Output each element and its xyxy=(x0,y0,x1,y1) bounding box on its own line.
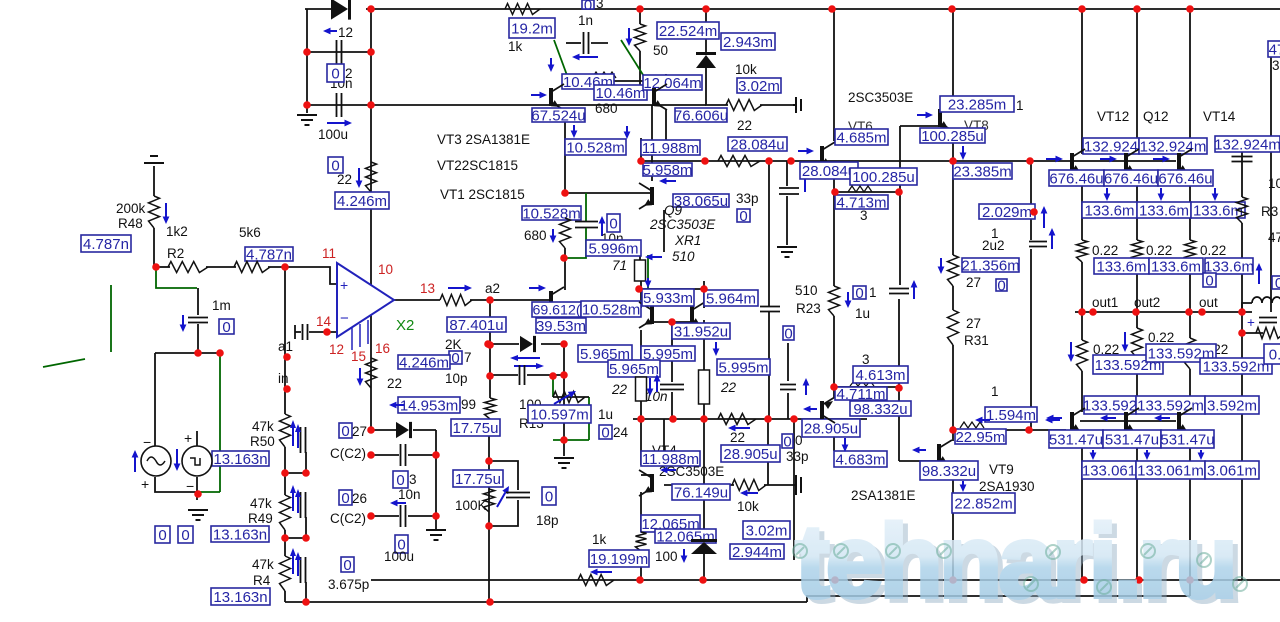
svg-text:2SC3503E: 2SC3503E xyxy=(659,464,724,479)
svg-text:4.787n: 4.787n xyxy=(246,246,292,263)
arrow 133.061 b xyxy=(1144,450,1151,460)
wire opamp out xyxy=(394,299,440,301)
svg-text:28.905u: 28.905u xyxy=(723,446,777,463)
capacitor 1u R23 xyxy=(889,289,909,294)
svg-text:67.524u: 67.524u xyxy=(531,107,585,124)
svg-text:3.02m: 3.02m xyxy=(738,78,780,95)
probe 87.401u xyxy=(447,317,506,334)
resistor 0.22 d xyxy=(1077,340,1088,371)
svg-text:17.75u: 17.75u xyxy=(453,420,499,437)
wire 10n mid green low xyxy=(566,228,586,258)
arrow XR1 xyxy=(645,254,662,261)
probe 133.061m b xyxy=(1136,461,1205,479)
wire row430 b xyxy=(413,429,436,431)
svg-text:4.787n: 4.787n xyxy=(83,236,129,253)
wire col 953 mid xyxy=(952,286,954,310)
arrow rect a down xyxy=(647,378,654,396)
capacitor 10n mid2 xyxy=(660,385,684,390)
probe 38.065u xyxy=(673,193,729,210)
transistor VT out2 low xyxy=(1124,408,1139,434)
resistor R50 xyxy=(280,414,291,447)
svg-text:27: 27 xyxy=(966,275,981,290)
svg-text:3: 3 xyxy=(860,208,868,223)
probe 28.084u right xyxy=(728,136,787,153)
junction n63 xyxy=(949,576,957,584)
svg-text:10.528m: 10.528m xyxy=(582,301,640,318)
probe 1.594m xyxy=(985,407,1037,424)
wire VT8 branch xyxy=(952,9,954,107)
probe 22.852m xyxy=(952,493,1015,513)
svg-text:132.924: 132.924 xyxy=(1084,138,1138,155)
junction n56 xyxy=(895,188,903,196)
svg-text:VT14: VT14 xyxy=(1203,109,1236,124)
svg-text:133.592: 133.592 xyxy=(1083,397,1137,414)
capacitor 10n bottom xyxy=(401,444,406,466)
junction n45 xyxy=(949,157,957,165)
wire a2 col down xyxy=(489,300,491,376)
probe 47 edge xyxy=(1268,41,1280,58)
junction n30 xyxy=(485,457,493,465)
svg-text:0: 0 xyxy=(341,423,349,440)
probe 10.528m mid xyxy=(522,205,581,222)
wire cap row 375b xyxy=(527,374,564,376)
svg-text:0: 0 xyxy=(181,527,189,544)
svg-text:100: 100 xyxy=(655,549,678,564)
resistor emitter b xyxy=(699,370,710,404)
svg-text:531.47u: 531.47u xyxy=(1049,431,1103,448)
svg-text:23.285m: 23.285m xyxy=(948,96,1006,113)
svg-text:C(C2): C(C2) xyxy=(330,511,366,526)
probe 132.924m c xyxy=(1214,136,1280,153)
probe 133.592m u3 xyxy=(1200,358,1272,375)
probe 22.524m xyxy=(657,22,719,40)
wire VT8 base col xyxy=(899,126,901,192)
wire 17.75 col xyxy=(489,376,491,398)
svg-text:out: out xyxy=(1199,295,1218,310)
junction n19 xyxy=(281,469,289,477)
arrow VT4 top xyxy=(660,467,676,474)
wire diode col 705b xyxy=(703,554,705,580)
svg-text:10p: 10p xyxy=(445,371,468,386)
transistor Q12 xyxy=(1124,149,1139,175)
probe 133.6m c xyxy=(1191,202,1245,219)
probe 5.933m xyxy=(642,289,694,307)
junction n38 xyxy=(484,340,492,348)
svg-text:0: 0 xyxy=(584,0,592,14)
junction n7 xyxy=(1186,5,1194,13)
wire diode row 344 xyxy=(490,343,519,345)
svg-text:3.02m: 3.02m xyxy=(746,522,788,539)
junction n53 xyxy=(764,415,772,423)
probe 4.713m xyxy=(835,194,888,211)
wire diode row 344b xyxy=(541,343,564,345)
junction n20 xyxy=(302,469,310,477)
wire VT8 base xyxy=(900,125,938,127)
junction n60 xyxy=(636,576,644,584)
junction n54 xyxy=(790,415,798,423)
junction n31 xyxy=(485,522,493,530)
probe C26 value xyxy=(339,490,352,507)
wire minus stub xyxy=(295,331,301,333)
svg-text:10.597m: 10.597m xyxy=(530,406,588,423)
arrow 33p lower up xyxy=(803,378,810,395)
svg-text:10n: 10n xyxy=(398,487,421,502)
probe 0 top mid xyxy=(582,0,594,14)
svg-text:16: 16 xyxy=(375,341,390,356)
wire row455 a xyxy=(371,454,399,456)
svg-text:0: 0 xyxy=(1275,275,1280,292)
svg-text:0: 0 xyxy=(609,215,617,232)
wire col 953 low xyxy=(952,345,954,441)
svg-text:XR1: XR1 xyxy=(674,233,701,248)
svg-text:676.46u: 676.46u xyxy=(1049,170,1103,187)
svg-text:−: − xyxy=(143,434,151,450)
svg-text:0.22: 0.22 xyxy=(1092,243,1118,258)
resistor 0.22 f xyxy=(1185,338,1196,369)
junction n39 xyxy=(560,371,568,379)
wire col 704 mid xyxy=(703,320,705,370)
junction n49 xyxy=(668,318,676,326)
svg-text:3: 3 xyxy=(596,0,604,11)
arrow 0.22d down xyxy=(1068,342,1075,362)
svg-text:28.905u: 28.905u xyxy=(804,420,858,437)
transistor Q a2 xyxy=(549,287,564,313)
arrows R50 pair xyxy=(293,424,298,448)
probe 28.905u low xyxy=(721,445,780,463)
probe 39.53m xyxy=(536,318,586,335)
svg-text:11.988m: 11.988m xyxy=(642,140,699,157)
svg-text:10.528m: 10.528m xyxy=(566,139,624,156)
svg-text:0: 0 xyxy=(783,433,791,450)
svg-text:13.163n: 13.163n xyxy=(213,451,267,468)
svg-text:22: 22 xyxy=(730,430,745,445)
arrow VT6 base xyxy=(798,148,814,155)
probe 133.592m l2 xyxy=(1136,396,1205,414)
junction n64 xyxy=(1080,576,1088,584)
svg-text:1u: 1u xyxy=(855,306,870,321)
wire green left vert xyxy=(110,285,112,352)
junction n72 xyxy=(1238,308,1246,316)
svg-text:0: 0 xyxy=(784,325,792,342)
svg-text:0: 0 xyxy=(855,285,863,302)
svg-text:47k: 47k xyxy=(252,419,274,434)
svg-text:12.065m: 12.065m xyxy=(656,528,714,545)
svg-text:47: 47 xyxy=(1269,41,1280,58)
probe 0 out xyxy=(1203,272,1216,289)
svg-text:27: 27 xyxy=(352,424,367,439)
capacitor 18p xyxy=(506,493,530,498)
junction n18 xyxy=(283,385,291,393)
probe C27 value xyxy=(339,423,352,440)
svg-text:531.47u: 531.47u xyxy=(1160,431,1214,448)
svg-text:47k: 47k xyxy=(250,496,272,511)
svg-text:10: 10 xyxy=(378,262,393,277)
svg-text:26: 26 xyxy=(352,491,367,506)
svg-text:33p: 33p xyxy=(786,449,809,464)
arrow V2 down xyxy=(174,449,181,471)
junction n10 xyxy=(303,101,311,109)
probe 3.02m low xyxy=(743,521,790,539)
probe 100.285u a xyxy=(850,168,917,186)
svg-text:2.029m: 2.029m xyxy=(982,204,1032,221)
junction n21 xyxy=(281,534,289,542)
arrow q28905 emitter xyxy=(824,401,833,409)
svg-text:+: + xyxy=(141,476,149,492)
probe 4.246m top xyxy=(335,192,389,210)
diode D1 top rail xyxy=(331,0,351,20)
svg-text:676.46u: 676.46u xyxy=(1158,170,1212,187)
wire green R2 down xyxy=(156,267,197,288)
junction n59 xyxy=(1030,208,1038,216)
wire col 794 down xyxy=(793,419,795,560)
wire q10 cols xyxy=(640,281,642,308)
svg-text:R4: R4 xyxy=(253,573,271,588)
wire a2 node xyxy=(470,299,549,301)
arrow 10.46 down xyxy=(548,58,555,72)
wire 1n lead xyxy=(566,42,581,44)
svg-text:VT3 2SA1381E: VT3 2SA1381E xyxy=(437,132,530,147)
arrow R23 down xyxy=(845,292,852,308)
probe 3.02m top xyxy=(737,78,781,95)
junction n16 xyxy=(194,490,202,498)
svg-text:22: 22 xyxy=(387,376,402,391)
svg-text:33p: 33p xyxy=(736,191,759,206)
probe 676.46u c xyxy=(1158,170,1213,187)
probe 5.965m a xyxy=(578,345,632,363)
probe 12.064m xyxy=(643,75,702,92)
junction n41 xyxy=(637,157,645,165)
arrow VT8 base xyxy=(917,112,933,119)
wire src square up xyxy=(196,431,198,446)
junction n12 xyxy=(152,263,160,271)
watermark tehnari.ru xyxy=(795,504,1243,622)
svg-text:1k: 1k xyxy=(592,532,607,547)
junction n3 xyxy=(828,5,836,13)
probe 133.592m u2 xyxy=(1146,344,1216,362)
junction n36 xyxy=(549,372,557,380)
wire rail 596 right xyxy=(807,596,1190,602)
wire 10k to cap xyxy=(760,104,793,106)
arrow VT14 base xyxy=(1153,156,1170,163)
wire col 834 low xyxy=(833,423,835,451)
svg-text:133.061m: 133.061m xyxy=(1137,462,1204,479)
arrow 22 rail419 xyxy=(728,425,750,432)
svg-text:1: 1 xyxy=(1016,98,1024,113)
svg-text:2SA1930: 2SA1930 xyxy=(979,479,1035,494)
wire resistor 50 branch xyxy=(639,9,641,24)
transistor Q9 low xyxy=(639,302,654,328)
svg-text:133.592m: 133.592m xyxy=(1137,397,1204,414)
svg-text:5k6: 5k6 xyxy=(239,225,261,240)
svg-text:5.995m: 5.995m xyxy=(718,359,768,376)
svg-text:in: in xyxy=(278,371,289,386)
svg-text:14: 14 xyxy=(316,314,332,329)
probe 133.6m d xyxy=(1094,258,1149,275)
arrow 22 opamp down xyxy=(357,368,364,386)
svg-text:98.332u: 98.332u xyxy=(922,463,976,480)
svg-text:14.953m: 14.953m xyxy=(400,397,458,414)
svg-text:a1: a1 xyxy=(278,339,293,354)
svg-text:12: 12 xyxy=(329,342,344,357)
svg-text:2: 2 xyxy=(345,66,353,81)
resistor 22 rail419 xyxy=(718,414,756,425)
arrow 2u2 up xyxy=(1049,228,1056,249)
junction n68 xyxy=(1089,308,1097,316)
diode D5 low xyxy=(691,539,717,554)
svg-text:38.065u: 38.065u xyxy=(674,193,728,210)
junction n9 xyxy=(367,48,375,56)
wire Q2 collector xyxy=(665,74,667,83)
arrow VT12 base xyxy=(1046,156,1063,163)
svg-text:1.594m: 1.594m xyxy=(986,407,1036,424)
svg-text:0: 0 xyxy=(997,277,1005,294)
probe 76.149u xyxy=(672,484,730,501)
probe 4.683m xyxy=(834,451,887,468)
svg-text:0.22: 0.22 xyxy=(1146,243,1172,258)
arrow 100u right xyxy=(327,120,352,127)
wire col 899 low xyxy=(898,299,900,461)
junction n40 xyxy=(561,189,569,197)
svg-text:133.6m: 133.6m xyxy=(1139,202,1189,219)
probe 5.958m xyxy=(642,162,692,179)
wire row V+ caps upper xyxy=(307,51,371,53)
wire y105 gap xyxy=(656,104,706,106)
svg-text:10: 10 xyxy=(1268,176,1280,191)
wire node row 81 xyxy=(566,80,660,82)
junction n1 xyxy=(636,5,644,13)
wire row161 to VT12 bases xyxy=(820,160,1176,162)
svg-text:0: 0 xyxy=(331,65,339,82)
wire Q1 collector up xyxy=(564,81,566,89)
svg-text:0: 0 xyxy=(451,350,459,367)
svg-text:15: 15 xyxy=(351,349,366,364)
wire out col1 mid xyxy=(1081,170,1083,240)
arrow 5.933 down xyxy=(645,278,652,288)
junction n4 xyxy=(948,5,956,13)
junction n57 xyxy=(895,384,903,392)
wire cap33p top col xyxy=(786,161,788,186)
capacitor load xyxy=(1259,318,1277,323)
probe 13.163n c xyxy=(211,588,270,606)
wire out col2 to rail xyxy=(1136,262,1138,312)
arrow 133.061 a xyxy=(1090,450,1097,460)
probe 11.988m low xyxy=(641,451,700,468)
svg-text:24: 24 xyxy=(613,425,629,440)
probe 28.084u b xyxy=(800,162,858,180)
probe 133.061 a xyxy=(1082,461,1136,479)
junction n50 xyxy=(637,415,645,423)
probe 14.953m xyxy=(398,397,460,414)
svg-text:0.: 0. xyxy=(1269,346,1280,363)
junction n8 xyxy=(303,48,311,56)
wire 10k row 485b xyxy=(764,484,793,486)
resistor rail580 xyxy=(578,575,614,586)
wire out col2 lower xyxy=(1136,312,1138,328)
probe 69.612 xyxy=(532,302,581,319)
svg-text:2SA1381E: 2SA1381E xyxy=(851,488,916,503)
wire rail 419 xyxy=(633,418,867,420)
arrow cap mid up xyxy=(599,216,606,236)
arrow 133.6 c xyxy=(1212,188,1219,201)
wire VT8 emitter down xyxy=(952,130,954,161)
wire src sine up xyxy=(154,353,156,446)
wire Q base col 565 xyxy=(564,258,566,290)
resistor 13 xyxy=(440,295,472,306)
capacitor C R4 xyxy=(301,557,306,583)
wire out driver row xyxy=(1080,420,1176,422)
capacitor 10n mid xyxy=(575,222,598,228)
svg-text:100u: 100u xyxy=(318,127,348,142)
resistor R2 xyxy=(168,262,208,273)
svg-text:47: 47 xyxy=(1268,230,1280,245)
svg-text:R3: R3 xyxy=(1261,204,1278,219)
wire row V+ caps lower xyxy=(307,104,371,106)
junction n65 xyxy=(1135,576,1143,584)
resistor 10k top xyxy=(726,100,762,111)
wire cap 0 col2 xyxy=(768,312,770,419)
wire 1k to rail xyxy=(640,551,642,580)
arrow 23.385 down xyxy=(960,146,967,160)
probe 676.46u b xyxy=(1104,170,1158,187)
wire green diag A xyxy=(554,40,568,78)
svg-text:510: 510 xyxy=(672,249,695,264)
arrows bidir cap xyxy=(510,355,544,369)
svg-text:71: 71 xyxy=(612,258,627,273)
capacitor 2u2 xyxy=(1029,242,1047,247)
wire cap33p to ground xyxy=(786,196,788,245)
svg-text:VT12: VT12 xyxy=(1097,109,1129,124)
svg-text:2.943m: 2.943m xyxy=(723,34,773,51)
svg-text:76.149u: 76.149u xyxy=(674,484,728,501)
svg-text:2SC3503E: 2SC3503E xyxy=(649,217,716,232)
wire R48 ground stub xyxy=(153,166,155,196)
svg-text:5.964m: 5.964m xyxy=(706,290,756,307)
svg-text:22.524m: 22.524m xyxy=(659,23,717,40)
arrow 4.683 down xyxy=(842,438,849,452)
arrow 133.6 a xyxy=(1104,188,1111,201)
wire out col2 bottom xyxy=(1136,430,1138,580)
junction n17 xyxy=(283,353,291,361)
svg-text:27: 27 xyxy=(966,316,981,331)
wire src square down xyxy=(196,477,198,500)
wire Q5 base row xyxy=(565,192,652,194)
wire pot 387 xyxy=(834,386,899,388)
probe 19.2m xyxy=(509,18,555,38)
arrow V1 up xyxy=(132,450,139,472)
arrow 1m down xyxy=(180,315,187,332)
wire R13 green left xyxy=(552,375,554,397)
junction n44 xyxy=(787,157,795,165)
junction n29 xyxy=(432,512,440,520)
svg-text:100.285u: 100.285u xyxy=(852,169,915,186)
svg-text:13.163n: 13.163n xyxy=(213,589,267,606)
junction n52 xyxy=(700,415,708,423)
probe 23.285m xyxy=(940,96,1014,113)
wire 17.75 col2 xyxy=(488,419,490,526)
wire out col3 mid xyxy=(1189,170,1191,240)
transistor VT out3 low xyxy=(1177,408,1192,434)
wire out col1 top xyxy=(1081,9,1083,154)
svg-text:18p: 18p xyxy=(536,513,559,528)
svg-text:VT9: VT9 xyxy=(989,462,1014,477)
svg-text:0: 0 xyxy=(601,424,609,441)
wire R48 to R2 xyxy=(153,228,155,267)
resistor R48 200k xyxy=(149,196,160,228)
junction n11 xyxy=(367,101,375,109)
junction n69 xyxy=(1132,308,1140,316)
diode D3 mid xyxy=(396,422,412,438)
wire R13 pot xyxy=(553,396,589,398)
